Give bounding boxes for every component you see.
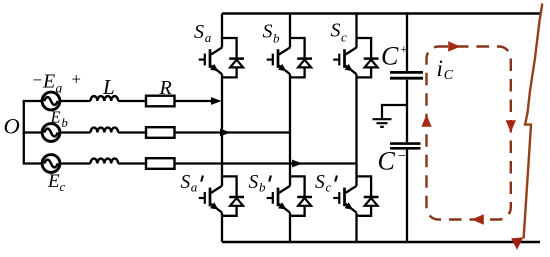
- svg-text:+: +: [71, 70, 82, 89]
- svg-text:E: E: [50, 108, 61, 127]
- svg-text:S: S: [263, 21, 273, 43]
- svg-text:R: R: [159, 77, 172, 99]
- svg-text:O: O: [4, 114, 20, 139]
- svg-text:a: a: [205, 30, 212, 45]
- svg-text:b: b: [62, 116, 68, 130]
- svg-text:C: C: [444, 68, 454, 83]
- svg-text:−: −: [397, 149, 406, 164]
- svg-text:C: C: [381, 42, 399, 71]
- svg-text:C: C: [378, 147, 396, 176]
- svg-text:a: a: [56, 81, 63, 96]
- svg-text:E: E: [42, 71, 55, 93]
- svg-text:+: +: [400, 43, 408, 57]
- svg-text:c: c: [341, 30, 347, 45]
- svg-text:−: −: [32, 71, 43, 90]
- svg-text:S: S: [331, 20, 341, 42]
- svg-text:a: a: [191, 180, 198, 195]
- svg-text:c: c: [60, 179, 66, 194]
- svg-text:c: c: [326, 180, 332, 195]
- svg-text:S: S: [249, 172, 259, 193]
- svg-text:b: b: [273, 31, 280, 46]
- svg-text:L: L: [102, 75, 115, 99]
- svg-text:S: S: [315, 172, 325, 193]
- svg-text:b: b: [259, 180, 266, 195]
- svg-text:S: S: [181, 172, 191, 193]
- svg-text:E: E: [47, 171, 60, 192]
- svg-text:i: i: [437, 56, 443, 81]
- svg-text:S: S: [194, 21, 204, 43]
